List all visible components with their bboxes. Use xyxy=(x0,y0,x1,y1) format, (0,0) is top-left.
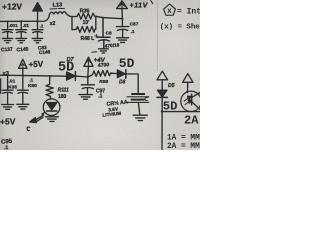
node bar left of R36/R48 xyxy=(71,17,73,30)
svg-text:5D: 5D xyxy=(119,56,135,71)
svg-text:C87: C87 xyxy=(130,21,139,27)
svg-text:(x) = She: (x) = She xyxy=(160,23,200,31)
wire +5V stem xyxy=(22,68,24,75)
power arrow A1 (open triangle) xyxy=(157,71,168,80)
photo arrows xyxy=(184,97,191,105)
stray dash xyxy=(92,51,97,54)
svg-text:K35: K35 xyxy=(8,85,17,91)
resistor R48 xyxy=(72,16,96,32)
LED diode triangle xyxy=(47,103,57,110)
svg-text:.1: .1 xyxy=(4,145,9,150)
wire +11V stem xyxy=(121,9,123,19)
capacitor C8 470/16 xyxy=(98,18,111,49)
diode D8 xyxy=(112,72,118,74)
svg-text:4700: 4700 xyxy=(98,62,110,69)
svg-text:.01: .01 xyxy=(9,79,16,85)
node dot +4V xyxy=(87,76,89,78)
power arrow +11V (open triangle with arrow) xyxy=(117,1,128,9)
capacitor K35 xyxy=(2,75,13,104)
node dot cap C145 xyxy=(20,20,22,22)
ground under K35 xyxy=(2,105,14,110)
ground under C137 xyxy=(2,38,12,42)
svg-text:+5V: +5V xyxy=(29,60,44,69)
svg-text:10': 10' xyxy=(83,20,90,26)
svg-text:K50: K50 xyxy=(28,83,37,89)
svg-text:C145: C145 xyxy=(16,47,29,54)
svg-text:R48 L: R48 L xyxy=(81,36,95,42)
svg-text:180: 180 xyxy=(58,94,67,100)
svg-text:R99: R99 xyxy=(99,79,108,85)
svg-text:D5: D5 xyxy=(168,83,175,89)
ground under K50 xyxy=(17,104,29,109)
ground under C87 xyxy=(117,38,129,43)
svg-text:.1: .1 xyxy=(40,24,44,29)
svg-text:R111: R111 xyxy=(58,88,69,94)
paper background xyxy=(0,0,200,150)
wire D8 to battery xyxy=(126,74,138,93)
node dot C8 xyxy=(102,17,104,19)
pencil curl mark xyxy=(27,127,30,131)
svg-text:.1: .1 xyxy=(29,78,33,84)
scan edge mark xyxy=(0,79,2,93)
power arrow +12V (filled triangle) xyxy=(33,3,43,11)
svg-text:.001: .001 xyxy=(9,23,18,28)
stray mark corner xyxy=(151,1,153,4)
node dot R111 xyxy=(49,75,51,77)
wire R36 to +11V node xyxy=(96,16,123,18)
power arrow +5V (open triangle) xyxy=(19,59,27,68)
ground under C8 xyxy=(99,49,109,53)
capacitor C87 xyxy=(116,19,128,38)
capacitor C83/C148 xyxy=(32,21,43,38)
diode D7 xyxy=(67,72,75,80)
svg-text:+11V: +11V xyxy=(130,3,149,10)
svg-text:L13: L13 xyxy=(53,3,63,9)
svg-text:1A = MM: 1A = MM xyxy=(167,134,200,142)
capacitor C97 xyxy=(81,77,94,94)
stray mark c xyxy=(145,97,148,100)
svg-text:+12V: +12V xyxy=(2,2,22,12)
ground under LED xyxy=(46,117,59,122)
node dot K50 xyxy=(22,74,24,76)
phototransistor Q 2A xyxy=(181,91,201,111)
svg-text:C137: C137 xyxy=(1,47,14,54)
power arrow A2 (open triangle) xyxy=(183,74,193,83)
svg-text:.1: .1 xyxy=(131,29,135,35)
plus mark C8 xyxy=(95,34,98,37)
legend symbol pentagon x xyxy=(164,4,176,15)
capacitor K50 xyxy=(17,75,28,104)
LED cathode bar xyxy=(47,110,57,112)
svg-text:2A: 2A xyxy=(184,113,199,127)
node dot cap C137 xyxy=(7,20,9,22)
svg-text:.01: .01 xyxy=(23,23,30,28)
capacitor C145 xyxy=(16,21,27,38)
LED circle xyxy=(43,99,60,116)
wire coil to junction xyxy=(66,14,72,17)
node dot box corner xyxy=(161,110,163,112)
ground under C145 xyxy=(16,38,26,42)
resistor R111 xyxy=(46,76,53,99)
wire D7 to node xyxy=(75,75,87,78)
battery CR 1/2 AA xyxy=(132,93,144,95)
node dot R99/D8 xyxy=(111,72,113,74)
node dot K35 xyxy=(7,74,9,76)
diode D5 xyxy=(157,90,167,97)
legend box top border xyxy=(162,111,200,113)
svg-text:= Int: = Int xyxy=(177,8,200,17)
divider line (faint) xyxy=(156,2,158,71)
LED emission arrows xyxy=(34,113,44,122)
capacitor C137 xyxy=(2,21,13,38)
svg-text:.1: .1 xyxy=(98,94,102,100)
wire rail +5V xyxy=(0,75,67,76)
wire battery to ground xyxy=(138,102,139,115)
node dot +11V xyxy=(121,18,123,20)
wire / net line D5 vertical xyxy=(161,80,163,150)
wire stem from +12V arrow xyxy=(37,11,39,21)
ground under C83 xyxy=(32,38,42,42)
svg-text:x2: x2 xyxy=(50,21,56,27)
wire rail top-left xyxy=(0,14,50,21)
svg-text:C148: C148 xyxy=(39,49,51,56)
ground under battery xyxy=(133,115,147,120)
resistor R99 xyxy=(88,70,112,77)
wire +4V stem xyxy=(87,66,90,77)
svg-text:2A = MM: 2A = MM xyxy=(167,143,200,150)
power arrow +4V (open triangle with arrow) xyxy=(84,57,93,66)
wire A2 stem xyxy=(186,82,188,92)
svg-text:x: x xyxy=(167,8,172,16)
svg-text:+5V: +5V xyxy=(0,116,16,126)
wire LED to ground xyxy=(51,116,53,117)
ground under C97 xyxy=(79,95,92,100)
svg-text:C8: C8 xyxy=(106,31,112,37)
svg-text:D8: D8 xyxy=(119,79,126,85)
